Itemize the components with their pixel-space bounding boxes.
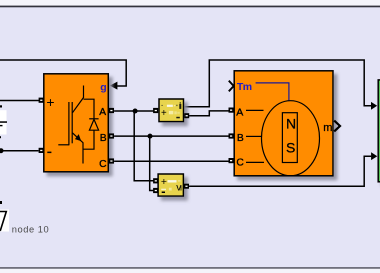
svg-text:B: B [100,133,107,144]
svg-text:+: + [46,94,54,110]
svg-text:N: N [286,116,296,132]
svg-text:B: B [237,133,244,144]
svg-text:C: C [236,158,244,169]
svg-text:S: S [286,140,295,156]
svg-text:g: g [100,82,106,94]
svg-text:node 10: node 10 [12,225,49,235]
svg-text:Tm: Tm [237,81,252,93]
svg-text:A: A [236,107,243,119]
svg-text:+: + [161,177,167,188]
svg-text:A: A [99,107,106,118]
svg-text:C: C [99,159,107,170]
svg-text:+: + [161,108,167,119]
svg-text:m: m [323,122,332,134]
